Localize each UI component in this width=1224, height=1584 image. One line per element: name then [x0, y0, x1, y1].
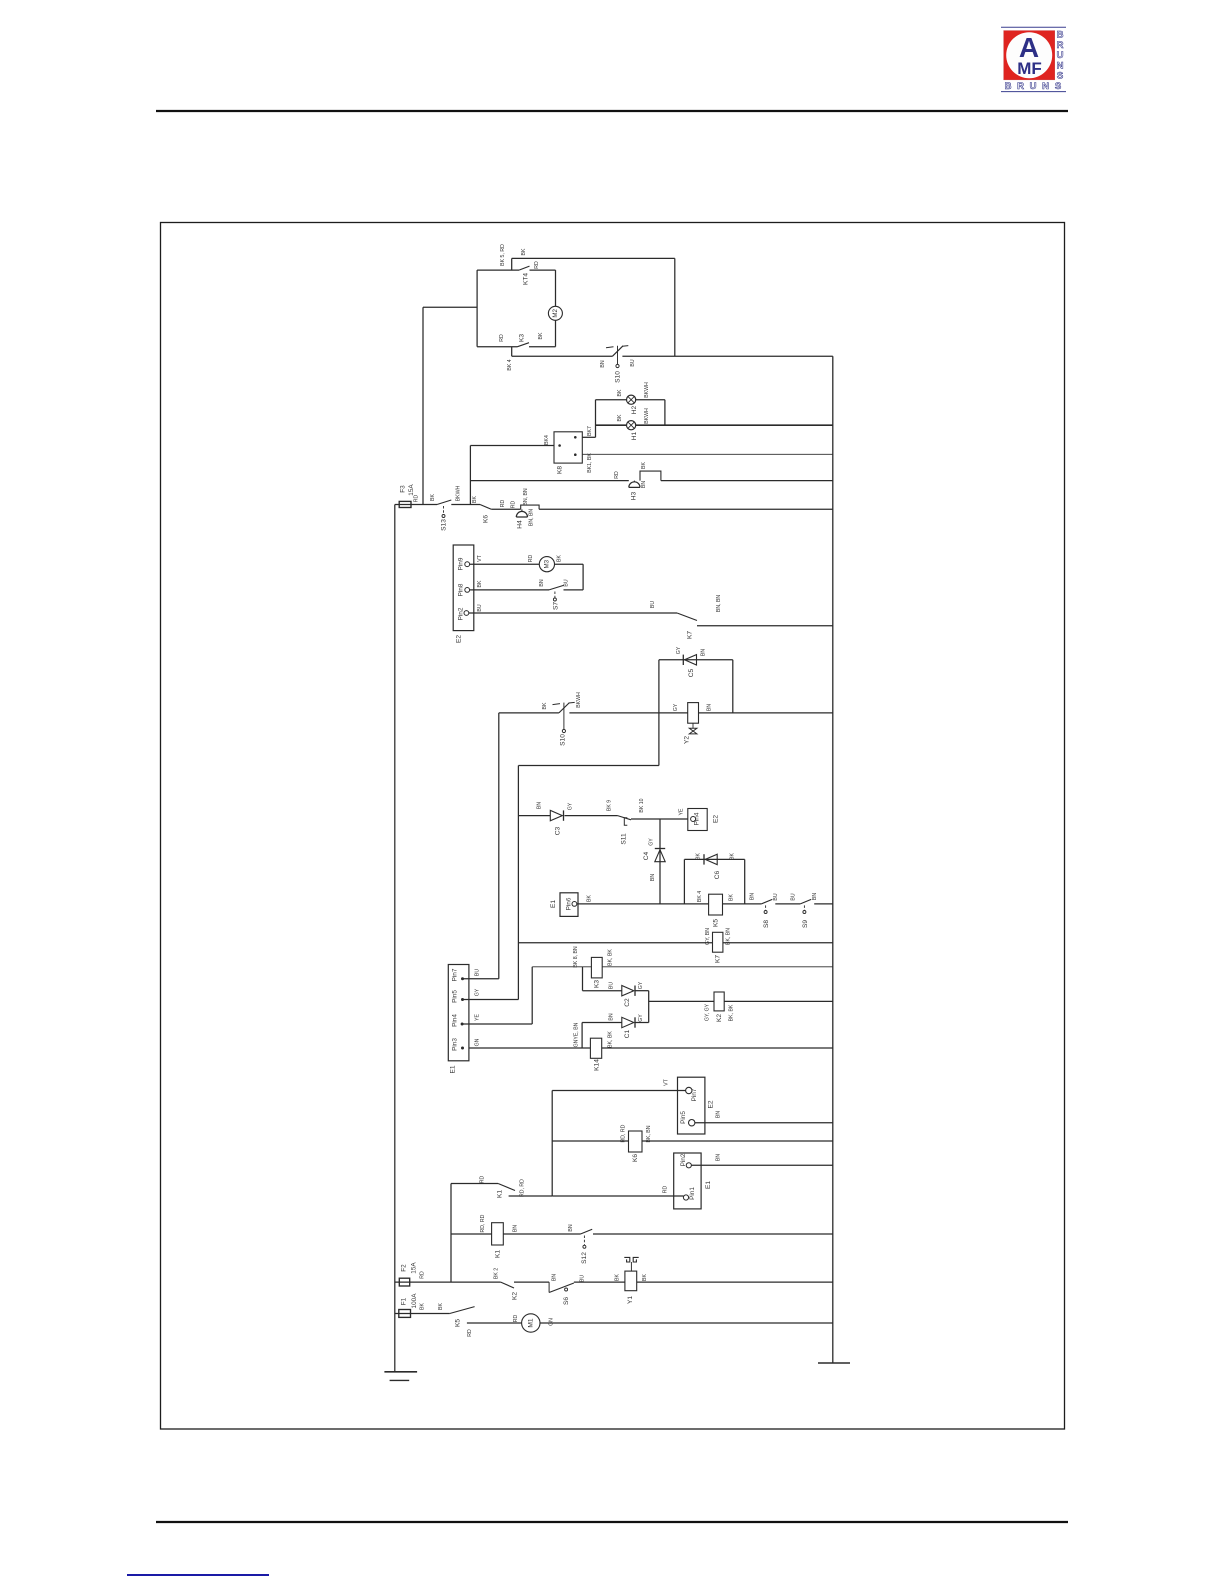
svg-text:GN: GN	[475, 1038, 481, 1046]
svg-text:RD, RD: RD, RD	[621, 1124, 627, 1142]
svg-text:Pin2: Pin2	[458, 607, 465, 620]
svg-text:RD: RD	[499, 334, 505, 342]
svg-text:BN: BN	[701, 649, 707, 656]
svg-text:VT: VT	[477, 554, 483, 561]
svg-text:S10: S10	[615, 371, 622, 383]
svg-text:GY: GY	[638, 1014, 644, 1022]
svg-text:BK: BK	[542, 702, 548, 709]
svg-text:GY, BN: GY, BN	[705, 928, 711, 945]
svg-text:E2: E2	[708, 1100, 715, 1108]
svg-text:M3: M3	[543, 559, 550, 568]
svg-text:Pin8: Pin8	[458, 583, 465, 596]
svg-text:RD, RD: RD, RD	[480, 1214, 486, 1232]
svg-text:BN: BN	[716, 1111, 722, 1118]
svg-text:K8: K8	[557, 466, 564, 474]
svg-text:BU: BU	[650, 601, 656, 608]
svg-text:K1: K1	[495, 1250, 502, 1258]
svg-text:K6: K6	[483, 515, 490, 523]
svg-text:BK 4: BK 4	[697, 891, 703, 902]
svg-text:K5: K5	[713, 919, 720, 927]
svg-text:H4: H4	[517, 520, 524, 529]
svg-text:BK4: BK4	[544, 435, 550, 445]
svg-text:YE: YE	[679, 808, 685, 815]
svg-text:F2: F2	[401, 1264, 408, 1272]
svg-text:M1: M1	[527, 1318, 534, 1327]
svg-text:BU: BU	[791, 893, 797, 900]
svg-text:Pin4: Pin4	[452, 1014, 459, 1027]
svg-text:BK 5, RD: BK 5, RD	[500, 244, 506, 266]
svg-text:BKWH: BKWH	[576, 692, 582, 708]
svg-text:RD: RD	[534, 261, 540, 269]
svg-text:BU: BU	[773, 893, 779, 900]
svg-text:GNYE, BN: GNYE, BN	[574, 1022, 580, 1047]
svg-text:C3: C3	[555, 826, 562, 835]
svg-text:BK: BK	[642, 1274, 648, 1281]
svg-text:N: N	[1042, 81, 1049, 92]
svg-text:BK: BK	[617, 389, 623, 396]
svg-text:BU: BU	[564, 579, 570, 586]
svg-text:BN, BN: BN, BN	[523, 488, 529, 506]
svg-text:GY: GY	[638, 981, 644, 989]
svg-text:GY: GY	[568, 802, 574, 810]
svg-text:BN, BN: BN, BN	[529, 509, 535, 527]
svg-text:C2: C2	[624, 998, 631, 1007]
svg-text:BK: BK	[538, 332, 544, 339]
svg-text:S11: S11	[621, 833, 628, 845]
svg-text:Y2: Y2	[684, 736, 691, 744]
svg-text:S13: S13	[441, 519, 448, 531]
svg-text:H1: H1	[631, 431, 638, 440]
svg-text:K5: K5	[455, 1319, 462, 1327]
svg-text:BK 8, BN: BK 8, BN	[573, 946, 579, 968]
svg-text:BK: BK	[472, 496, 478, 503]
svg-text:K3: K3	[519, 334, 526, 342]
svg-text:Pin5: Pin5	[452, 990, 459, 1003]
svg-text:BKWH: BKWH	[456, 485, 462, 501]
svg-text:E2: E2	[713, 815, 720, 823]
svg-text:VT: VT	[664, 1078, 670, 1085]
svg-text:C4: C4	[643, 851, 650, 860]
svg-text:BN: BN	[552, 1274, 558, 1281]
svg-text:K6: K6	[632, 1154, 639, 1162]
svg-text:100A: 100A	[411, 1293, 418, 1309]
svg-text:Y1: Y1	[627, 1296, 634, 1304]
svg-text:K2: K2	[716, 1014, 723, 1022]
svg-text:BK: BK	[521, 248, 527, 255]
svg-text:Pin7: Pin7	[691, 1088, 698, 1101]
svg-text:RD: RD	[420, 1271, 426, 1279]
svg-text:KT4: KT4	[523, 273, 530, 285]
svg-text:BK: BK	[696, 853, 702, 860]
svg-text:RD: RD	[614, 471, 620, 479]
svg-text:BK, BK: BK, BK	[729, 1004, 735, 1021]
svg-text:BK, BK: BK, BK	[608, 949, 614, 966]
svg-text:15A: 15A	[408, 484, 415, 496]
svg-text:BN: BN	[539, 579, 545, 586]
svg-text:BK: BK	[438, 1303, 444, 1310]
svg-text:BU: BU	[609, 982, 615, 989]
svg-text:BK: BK	[617, 414, 623, 421]
svg-text:E1: E1	[450, 1065, 457, 1073]
svg-text:BK, BN: BK, BN	[726, 928, 732, 945]
svg-text:BN: BN	[750, 893, 756, 900]
svg-text:BK: BK	[730, 853, 736, 860]
svg-text:K7: K7	[687, 631, 694, 639]
svg-text:RD: RD	[663, 1186, 669, 1194]
svg-text:BK: BK	[430, 494, 436, 501]
svg-text:E1: E1	[705, 1181, 712, 1189]
svg-text:BN: BN	[812, 893, 818, 900]
svg-text:E2: E2	[456, 635, 463, 643]
svg-text:BK: BK	[557, 555, 563, 562]
svg-text:RD: RD	[480, 1176, 486, 1184]
svg-text:YE: YE	[475, 1014, 481, 1021]
svg-text:BU: BU	[475, 969, 481, 976]
svg-text:BK 2: BK 2	[494, 1268, 500, 1279]
svg-text:Pin7: Pin7	[452, 968, 459, 981]
svg-text:F1: F1	[401, 1297, 408, 1305]
svg-text:RD: RD	[511, 501, 517, 509]
svg-text:RD: RD	[467, 1329, 473, 1337]
svg-text:BN: BN	[609, 1013, 615, 1020]
svg-text:S8: S8	[763, 920, 770, 928]
svg-text:BK: BK	[615, 1274, 621, 1281]
svg-text:Pin9: Pin9	[458, 557, 465, 570]
svg-text:BN: BN	[513, 1225, 519, 1232]
svg-text:F3: F3	[400, 485, 407, 493]
svg-text:K2: K2	[512, 1292, 519, 1300]
svg-text:BN: BN	[568, 1224, 574, 1231]
svg-text:BN: BN	[641, 481, 647, 488]
svg-text:BK: BK	[587, 895, 593, 902]
svg-text:S: S	[1055, 81, 1061, 92]
svg-text:R: R	[1017, 81, 1024, 92]
svg-text:K7: K7	[715, 955, 722, 963]
svg-text:BU: BU	[580, 1275, 586, 1282]
svg-text:BK, BK: BK, BK	[608, 1031, 614, 1048]
svg-text:Pin4: Pin4	[694, 812, 701, 825]
svg-text:RD, RD: RD, RD	[520, 1179, 526, 1197]
svg-text:C1: C1	[624, 1029, 631, 1038]
svg-text:BK 4: BK 4	[507, 359, 513, 370]
svg-text:RD: RD	[500, 500, 506, 508]
svg-text:GY: GY	[676, 646, 682, 654]
svg-text:GY: GY	[649, 838, 655, 846]
svg-text:BK, BN: BK, BN	[646, 1125, 652, 1142]
svg-text:GY: GY	[673, 703, 679, 711]
svg-text:15A: 15A	[411, 1262, 418, 1274]
svg-text:RD: RD	[528, 555, 534, 563]
svg-text:BN, BN: BN, BN	[716, 595, 722, 613]
svg-text:BU: BU	[630, 359, 636, 366]
svg-text:GY, GY: GY, GY	[705, 1003, 711, 1021]
svg-text:BN: BN	[600, 360, 606, 367]
svg-text:BK 9: BK 9	[607, 800, 613, 811]
svg-text:BK7: BK7	[587, 426, 593, 436]
svg-text:GY: GY	[475, 988, 481, 996]
svg-text:S9: S9	[802, 920, 809, 928]
svg-text:Pin2: Pin2	[680, 1153, 687, 1166]
svg-text:BK: BK	[641, 462, 647, 469]
svg-text:M2: M2	[552, 308, 559, 317]
svg-text:BK: BK	[477, 580, 483, 587]
svg-text:S12: S12	[581, 1252, 588, 1264]
svg-text:BKWH: BKWH	[644, 382, 650, 398]
svg-text:BN: BN	[650, 874, 656, 881]
svg-text:Pin3: Pin3	[452, 1038, 459, 1051]
svg-text:Pin1: Pin1	[689, 1187, 696, 1200]
svg-text:C5: C5	[688, 668, 695, 677]
svg-text:S7: S7	[553, 602, 560, 610]
svg-text:H2: H2	[631, 405, 638, 414]
svg-text:Pin5: Pin5	[680, 1111, 687, 1124]
svg-text:RD: RD	[414, 495, 420, 503]
svg-text:S10: S10	[560, 734, 567, 746]
svg-text:BN: BN	[707, 704, 713, 711]
svg-text:S6: S6	[563, 1297, 570, 1305]
svg-text:BN: BN	[537, 802, 543, 809]
svg-text:K3: K3	[594, 980, 601, 988]
svg-text:E1: E1	[550, 900, 557, 908]
svg-text:MF: MF	[1017, 59, 1042, 78]
svg-text:U: U	[1030, 81, 1037, 92]
svg-text:K1: K1	[497, 1190, 504, 1198]
svg-text:BK: BK	[729, 894, 735, 901]
svg-text:BKWH: BKWH	[644, 408, 650, 424]
svg-text:H3: H3	[631, 491, 638, 500]
svg-text:RD: RD	[513, 1315, 519, 1323]
svg-text:Pin6: Pin6	[566, 897, 573, 910]
svg-text:B: B	[1005, 81, 1012, 92]
svg-text:BK1, BK: BK1, BK	[587, 453, 593, 473]
svg-text:BK: BK	[420, 1303, 426, 1310]
svg-text:C6: C6	[714, 870, 721, 879]
svg-text:K14: K14	[594, 1059, 601, 1071]
svg-text:BK 10: BK 10	[639, 798, 645, 812]
svg-text:BU: BU	[477, 604, 483, 611]
svg-text:BN: BN	[716, 1154, 722, 1161]
svg-text:GN: GN	[549, 1318, 555, 1326]
